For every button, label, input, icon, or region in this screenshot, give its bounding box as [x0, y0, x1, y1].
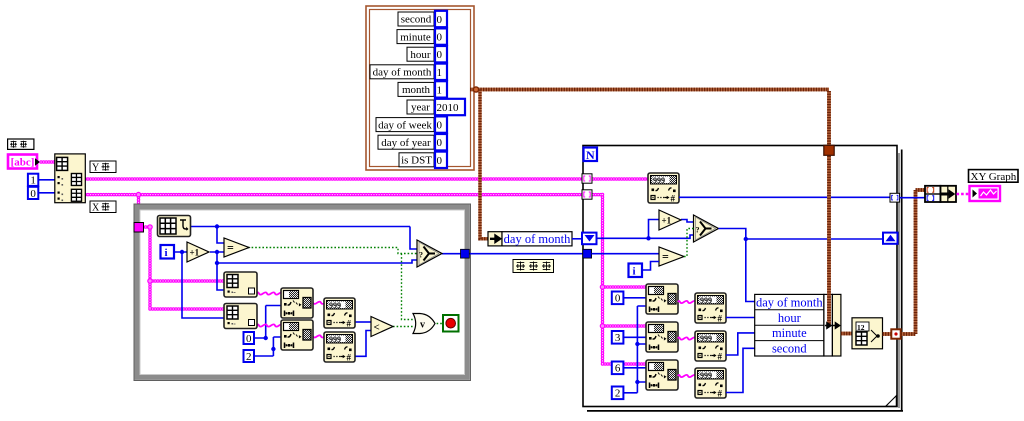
index array node 2	[224, 304, 257, 329]
svg-text:i: i	[165, 247, 168, 259]
cluster element value 0	[435, 134, 447, 150]
svg-text:1: 1	[437, 67, 443, 79]
svg-text:[abc]: [abc]	[11, 157, 35, 169]
unbundle by name node day of month	[488, 232, 502, 246]
pink junction	[600, 285, 604, 289]
For right tunnel brown output	[891, 329, 900, 338]
svg-text:day of month: day of month	[373, 67, 432, 79]
bundle by name cluster rows	[755, 294, 824, 356]
svg-text:year: year	[411, 102, 430, 114]
wire pink X inside For loop down to substring nodes	[593, 195, 646, 365]
svg-text:day of year: day of year	[381, 137, 431, 149]
wire string subset2 to to-number2	[311, 335, 325, 337]
to-number node C (999)	[695, 368, 726, 399]
while tunnel pink (left edge)	[134, 223, 144, 233]
constant 3 in For loop	[612, 331, 624, 344]
pink junction	[600, 324, 604, 328]
cluster element label second	[398, 12, 434, 26]
For tunnel auto-index 1 (left edge)	[582, 174, 592, 183]
svg-text:X: X	[92, 203, 100, 214]
cluster element label minute	[397, 30, 434, 44]
constant 2 in For loop	[612, 387, 624, 400]
string subset node 2	[281, 320, 313, 350]
svg-text:hour: hour	[778, 311, 802, 325]
cluster element value 0	[435, 152, 447, 168]
bundle node for XY graph	[925, 186, 941, 202]
increment node +1 in For loop	[659, 210, 681, 230]
to-number node B (999)	[695, 331, 726, 362]
wire Y-axis string-array (pink dashed) from build node to For-loop tunnel	[85, 177, 583, 181]
svg-text:0: 0	[246, 333, 252, 345]
select node	[417, 240, 442, 267]
svg-text:Y: Y	[92, 163, 99, 174]
array search icon (top-left of while loop)	[158, 216, 191, 237]
brown junction at cluster output	[473, 87, 478, 92]
pink wire junction	[148, 279, 152, 283]
wire string index-array1 to subset1	[257, 292, 283, 294]
constant 0 in while loop	[244, 332, 255, 344]
wire string index-array2 to subset2	[257, 324, 283, 326]
svg-text:2: 2	[615, 388, 621, 400]
wire blue constant 0 to node	[38, 192, 55, 194]
label XY Graph	[969, 170, 1019, 183]
For loop frame	[583, 146, 897, 407]
cluster element label day of year	[378, 135, 434, 149]
wire blue tunnel to equals	[592, 253, 659, 255]
OR node	[413, 314, 435, 334]
svg-text:i: i	[633, 266, 636, 278]
cluster element value 0	[435, 116, 447, 132]
constant 2 in while loop	[244, 350, 255, 362]
svg-text:hour: hour	[410, 49, 431, 61]
svg-text:0: 0	[437, 137, 443, 149]
count terminal N	[584, 148, 598, 162]
svg-text:day of week: day of week	[378, 119, 432, 131]
wire blue For output tunnel to bundle	[900, 197, 925, 199]
less-than node	[371, 317, 393, 337]
svg-text:0: 0	[437, 155, 443, 167]
decimal string to number node 1	[324, 298, 355, 329]
svg-text:0: 0	[437, 32, 443, 44]
wire green equals output up to select	[684, 229, 694, 257]
wire pink bundle to XY graph terminal	[957, 193, 971, 196]
wire blue select output to shift register and bundle	[719, 229, 884, 302]
constant 6 in For loop	[612, 362, 624, 375]
wire blue constant 2 fanned to subsets	[624, 306, 647, 393]
wire blue constant 2 to subset input	[254, 337, 281, 356]
wire blue constant 3 to subset2	[624, 336, 647, 338]
svg-text:second: second	[401, 14, 432, 26]
svg-text:2: 2	[246, 351, 252, 363]
wire pink inside while loop from tunnel to branches	[143, 227, 224, 309]
svg-text:0: 0	[437, 120, 443, 132]
shift register left (down arrow)	[582, 233, 597, 245]
label Y axis	[90, 161, 116, 173]
svg-text:month: month	[402, 84, 431, 96]
label X axis	[90, 201, 116, 213]
to-number node A (999)	[695, 293, 726, 324]
wire pink Y inside For loop to to-number node	[593, 177, 648, 181]
wire brown branch down to unbundle node	[480, 90, 488, 239]
svg-text:0: 0	[437, 14, 443, 26]
XY graph indicator terminal	[970, 186, 1001, 201]
wire blue select output through tunnel to For loop	[442, 253, 583, 255]
wire blue to-numberC to bundle second	[726, 348, 755, 392]
label 資料 (data)	[8, 139, 34, 149]
svg-text:0: 0	[30, 188, 36, 200]
wire blue to-number2 to less-than	[355, 331, 371, 357]
cluster element label day of month	[370, 65, 434, 79]
wire brown cluster into For loop and down to bundle node	[827, 91, 831, 326]
index array node 1	[224, 272, 257, 297]
svg-text:minute: minute	[772, 326, 807, 340]
cluster element value 0	[435, 11, 447, 27]
wire blue array-out across while loop	[191, 227, 417, 250]
string array control terminal [abc]	[8, 155, 37, 169]
wire blue from i terminal	[174, 252, 224, 318]
svg-text:2010: 2010	[437, 102, 460, 114]
wire blue +1 output to select	[681, 220, 694, 223]
decimal string to number node 2	[324, 332, 355, 363]
wire blue lower horizontal to select false input	[217, 260, 417, 263]
stop button	[443, 315, 459, 332]
while tunnel blue output (right edge)	[461, 249, 470, 258]
to-number node top (999)	[648, 173, 679, 204]
wire branch X-axis down into while-loop tunnel	[137, 195, 141, 222]
svg-text:second: second	[772, 342, 807, 356]
cluster element label is DST	[399, 153, 434, 167]
wire green OR output to stop button	[433, 323, 443, 325]
shift register right (up arrow)	[883, 233, 898, 244]
wire blue to-numberA to bundle hour	[726, 317, 755, 319]
constant 1	[28, 174, 38, 186]
For top tunnel brown	[824, 145, 834, 155]
iteration terminal i in For loop	[629, 264, 643, 278]
wire pink control to build node	[41, 160, 55, 164]
svg-text:6: 6	[615, 363, 621, 375]
junction on X-axis wire	[136, 192, 140, 196]
cluster element label year	[407, 100, 434, 114]
wire blue shift register to +1 and select	[597, 220, 694, 239]
svg-text:is DST: is DST	[401, 155, 432, 167]
wire string subsetA to to-numberA	[678, 301, 696, 303]
wire X-axis string-array (pink dashed) from build node to For-loop tunnel	[85, 193, 583, 197]
wire blue constant 6 to subset3	[624, 367, 647, 369]
string subset node C	[646, 360, 678, 390]
cluster element value 1	[435, 64, 447, 80]
svg-text:3: 3	[615, 332, 621, 344]
increment node +1	[187, 242, 209, 262]
wire blue to-number output to right tunnel	[679, 196, 890, 198]
wire string subset1 to to-number1	[311, 302, 325, 304]
equals node	[224, 238, 249, 257]
svg-text:minute: minute	[400, 31, 431, 43]
wire brown outside For loop up to final bundle	[901, 190, 925, 334]
label 換日點 (day change point)	[513, 260, 554, 273]
wire green less-than output to OR gate	[393, 326, 413, 328]
constant 0 in For loop	[612, 292, 624, 305]
bundle node arrows	[825, 323, 840, 328]
wire blue constant 1 to node	[38, 179, 55, 181]
wire brown bundle output to date-to-seconds node	[841, 332, 852, 336]
wire green equals output to select and OR gate	[248, 248, 417, 254]
svg-text:0: 0	[437, 49, 443, 61]
svg-text:day of month: day of month	[756, 295, 823, 309]
svg-text:1: 1	[437, 84, 443, 96]
For tunnel blue day-of-month (left edge)	[583, 249, 592, 258]
cluster element value 2010	[435, 99, 465, 115]
equals node in For loop	[659, 247, 684, 266]
wire blue unbundle output to shift register	[572, 238, 582, 240]
cluster element value 0	[435, 28, 447, 44]
select node in For loop	[694, 215, 719, 242]
svg-text:N: N	[586, 148, 595, 162]
wire blue to-number1 to less-than	[355, 321, 371, 323]
while loop frame (gray)	[134, 204, 471, 381]
cluster element label hour	[407, 47, 434, 61]
wire brown to output tunnel	[883, 332, 892, 336]
cluster element value 1	[435, 81, 447, 97]
wire brown cluster output across top	[470, 88, 829, 92]
wire blue to-numberB to bundle minute	[726, 333, 755, 355]
wire string subsetC to to-numberC	[678, 375, 696, 377]
wire blue constant 0 to subset1	[624, 297, 647, 299]
wire blue constant 0 to subset input	[254, 306, 281, 339]
For loop fold corner	[886, 396, 897, 407]
svg-text:1: 1	[30, 175, 36, 187]
svg-text:0: 0	[615, 293, 621, 305]
svg-text:day of month: day of month	[504, 232, 571, 246]
wire blue i to equals	[642, 262, 659, 271]
iteration terminal i	[161, 245, 175, 259]
pink wire junction	[148, 225, 152, 229]
cluster constant date-time record frame	[366, 6, 474, 170]
svg-text:XY Graph: XY Graph	[971, 171, 1017, 183]
For tunnel auto-index 2 (left edge)	[582, 190, 592, 199]
wire blue +1 output to equals and index input	[210, 252, 224, 290]
wire string subsetB to to-numberB	[678, 337, 696, 339]
cluster element value 0	[435, 46, 447, 62]
cluster element label month	[398, 82, 434, 96]
cluster element label day of week	[376, 118, 434, 132]
bundle by name node column	[824, 294, 833, 356]
wire blue to equals top input	[217, 227, 224, 244]
date-time to seconds node	[852, 318, 883, 349]
index array build node	[55, 154, 86, 203]
string subset node A	[646, 284, 678, 314]
string subset node 1	[281, 288, 313, 318]
svg-text:12: 12	[857, 323, 865, 332]
string subset node B	[646, 322, 678, 352]
constant 0	[28, 187, 38, 199]
For right tunnel auto-index out	[890, 193, 900, 202]
